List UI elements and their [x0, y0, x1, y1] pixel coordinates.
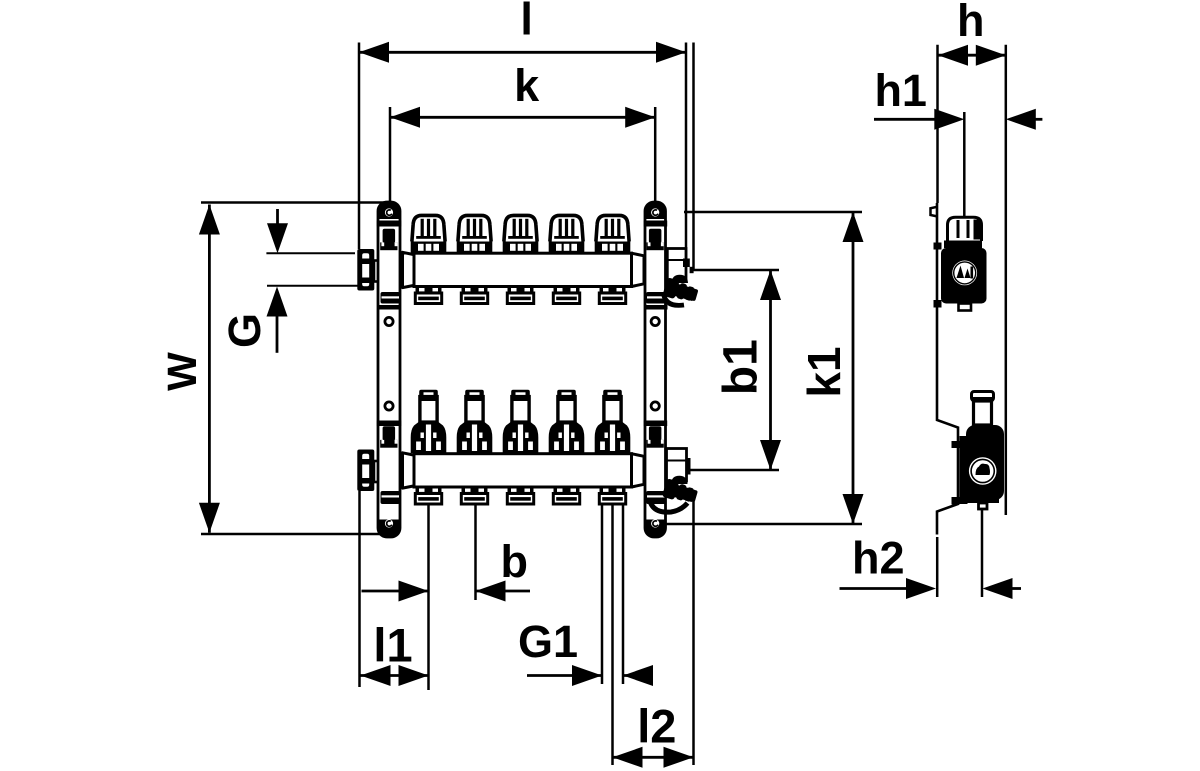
right mounting bracket — [644, 202, 668, 537]
extension line: outlet 5 right edge (G1) — [622, 504, 625, 685]
bottom bar left connector pipe — [374, 461, 403, 482]
svg-text:k1: k1 — [798, 346, 850, 397]
top bar union nut — [357, 249, 374, 291]
bottom bar outlet 2 — [461, 487, 487, 504]
dimension G1 — [518, 616, 653, 686]
dimension l1 — [360, 491, 429, 687]
top bar valve cap 4 — [549, 215, 585, 253]
dimension h — [938, 0, 1006, 515]
top bar outlet 3 — [507, 287, 533, 304]
top bar valve cap 3 — [503, 215, 539, 253]
bottom bar outlet 4 — [553, 487, 579, 504]
dimension h1 — [874, 65, 1042, 217]
svg-text:h1: h1 — [874, 65, 927, 116]
bottom bar flow meter valve 5 — [595, 390, 631, 453]
dimension k — [390, 60, 655, 203]
svg-text:l2: l2 — [637, 700, 676, 753]
dimension b — [362, 536, 531, 602]
dimension G — [219, 209, 358, 353]
top bar right connector pipe — [640, 258, 668, 282]
bottom bar flow meter valve 4 — [549, 390, 585, 453]
bottom bar flow meter valve 3 — [503, 390, 539, 453]
extension line: outlet 5 left edge (G1) — [601, 504, 604, 685]
svg-text:k: k — [514, 60, 540, 111]
top bar outlet 1 — [415, 287, 441, 304]
svg-text:l: l — [520, 0, 533, 45]
top bar outlet 4 — [553, 287, 579, 304]
top manifold bar tube — [403, 252, 645, 287]
bottom bar union nut — [357, 450, 374, 492]
dimension h2 — [840, 509, 1022, 600]
extension line: outlet 1 axis — [427, 504, 430, 691]
svg-text:b1: b1 — [715, 339, 768, 395]
svg-text:G1: G1 — [518, 616, 578, 667]
bottom bar flow meter valve 1 — [411, 390, 447, 453]
svg-text:W: W — [159, 352, 205, 391]
top bar left connector pipe — [374, 261, 403, 282]
svg-text:l1: l1 — [373, 619, 412, 672]
top bar valve cap 1 — [411, 215, 447, 253]
extension line: outlet 2 axis — [474, 504, 477, 601]
dimension k1 — [658, 212, 864, 524]
top bar outlet 2 — [461, 287, 487, 304]
svg-text:h2: h2 — [852, 533, 905, 584]
extension line: drain spout tip (l2) — [692, 493, 695, 765]
side view upper valve (bar end view) — [941, 217, 987, 310]
dimension b1 — [690, 270, 781, 470]
bottom bar drain valve — [650, 449, 699, 513]
top bar valve cap 5 — [595, 215, 631, 253]
dimension l2 — [613, 700, 694, 768]
svg-text:b: b — [501, 536, 529, 587]
side view lower valve (flow meter end view) — [960, 392, 1005, 510]
bottom bar right connector pipe — [640, 459, 668, 483]
extension line: outlet 5 axis — [611, 504, 614, 766]
bottom manifold bar tube — [403, 453, 645, 488]
left mounting bracket — [377, 202, 401, 537]
svg-text:h: h — [957, 0, 985, 46]
side view wall bracket profile — [931, 203, 960, 535]
top bar valve cap 2 — [457, 215, 493, 253]
top bar drain valve — [662, 249, 699, 306]
bottom bar outlet 1 — [415, 487, 441, 504]
dimension W — [159, 203, 390, 535]
top bar outlet 5 — [599, 287, 625, 304]
bottom bar outlet 3 — [507, 487, 533, 504]
bottom bar flow meter valve 2 — [457, 390, 493, 453]
dimension l — [359, 0, 694, 270]
bottom bar outlet 5 — [599, 487, 625, 504]
svg-text:G: G — [219, 313, 270, 348]
